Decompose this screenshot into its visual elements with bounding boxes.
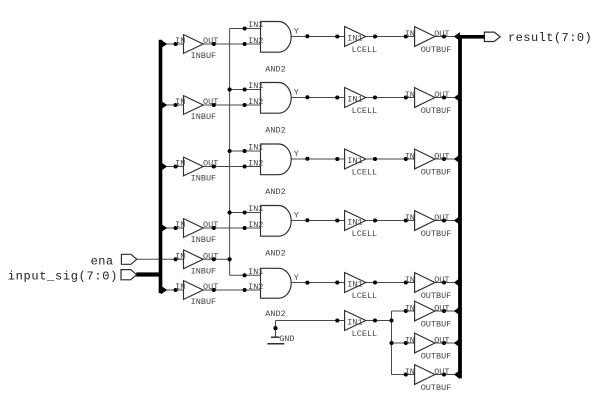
svg-text:LCELL: LCELL — [352, 329, 378, 339]
svg-text:OUTBUF: OUTBUF — [421, 106, 452, 116]
svg-text:IN: IN — [405, 29, 415, 39]
svg-text:IN2: IN2 — [248, 282, 263, 292]
svg-text:INBUF: INBUF — [191, 51, 217, 61]
svg-text:GND: GND — [279, 334, 294, 344]
svg-text:IN1: IN1 — [248, 204, 263, 214]
svg-text:OUT: OUT — [434, 367, 449, 377]
svg-text:INBUF: INBUF — [191, 235, 217, 245]
svg-text:INBUF: INBUF — [191, 174, 217, 184]
svg-text:AND2: AND2 — [265, 309, 285, 319]
svg-text:OUT: OUT — [434, 152, 449, 162]
svg-text:INBUF: INBUF — [191, 297, 217, 307]
svg-text:IN1: IN1 — [347, 156, 362, 166]
svg-text:Y: Y — [294, 27, 299, 37]
svg-text:OUT: OUT — [434, 29, 449, 39]
svg-text:Y: Y — [294, 211, 299, 221]
svg-text:AND2: AND2 — [265, 64, 285, 74]
svg-text:ena: ena — [91, 255, 114, 269]
svg-text:OUTBUF: OUTBUF — [421, 319, 452, 329]
svg-text:OUT: OUT — [434, 90, 449, 100]
svg-text:input_sig(7:0): input_sig(7:0) — [8, 269, 118, 283]
svg-text:IN1: IN1 — [347, 279, 362, 289]
svg-text:IN: IN — [405, 90, 415, 100]
svg-text:Y: Y — [294, 88, 299, 98]
svg-text:AND2: AND2 — [265, 187, 285, 197]
svg-text:INBUF: INBUF — [191, 267, 217, 277]
svg-text:OUT: OUT — [434, 304, 449, 314]
svg-text:IN: IN — [175, 220, 185, 230]
svg-text:OUTBUF: OUTBUF — [421, 351, 452, 361]
svg-text:IN1: IN1 — [248, 143, 263, 153]
svg-text:IN1: IN1 — [347, 317, 362, 327]
svg-text:IN: IN — [175, 97, 185, 107]
svg-text:OUTBUF: OUTBUF — [421, 383, 452, 393]
svg-text:IN1: IN1 — [347, 33, 362, 43]
svg-text:IN1: IN1 — [347, 217, 362, 227]
svg-text:OUTBUF: OUTBUF — [421, 229, 452, 239]
svg-text:LCELL: LCELL — [352, 45, 378, 55]
svg-text:IN: IN — [405, 367, 415, 377]
svg-text:LCELL: LCELL — [352, 291, 378, 301]
svg-text:result(7:0): result(7:0) — [508, 31, 592, 45]
svg-text:OUTBUF: OUTBUF — [421, 291, 452, 301]
svg-text:LCELL: LCELL — [352, 168, 378, 178]
svg-text:OUT: OUT — [203, 36, 218, 46]
svg-text:OUT: OUT — [203, 220, 218, 230]
svg-text:IN1: IN1 — [248, 81, 263, 91]
svg-text:OUT: OUT — [434, 275, 449, 285]
svg-text:IN: IN — [175, 36, 185, 46]
svg-text:IN: IN — [405, 336, 415, 346]
svg-text:IN1: IN1 — [248, 267, 263, 277]
svg-text:IN2: IN2 — [248, 220, 263, 230]
svg-text:AND2: AND2 — [265, 125, 285, 135]
svg-text:OUT: OUT — [203, 97, 218, 107]
svg-text:IN1: IN1 — [347, 94, 362, 104]
svg-text:IN: IN — [405, 152, 415, 162]
svg-text:IN2: IN2 — [248, 158, 263, 168]
svg-text:Y: Y — [294, 149, 299, 159]
svg-text:INBUF: INBUF — [191, 112, 217, 122]
svg-text:LCELL: LCELL — [352, 229, 378, 239]
svg-text:OUTBUF: OUTBUF — [421, 167, 452, 177]
svg-text:OUT: OUT — [434, 213, 449, 223]
svg-text:IN: IN — [405, 213, 415, 223]
svg-text:IN: IN — [405, 304, 415, 314]
svg-text:OUT: OUT — [203, 252, 218, 262]
svg-text:IN: IN — [175, 159, 185, 169]
svg-text:OUTBUF: OUTBUF — [421, 45, 452, 55]
svg-text:LCELL: LCELL — [352, 106, 378, 116]
svg-text:OUT: OUT — [434, 336, 449, 346]
svg-text:AND2: AND2 — [265, 248, 285, 258]
svg-text:IN2: IN2 — [248, 97, 263, 107]
svg-text:IN2: IN2 — [248, 36, 263, 46]
svg-text:IN: IN — [175, 252, 185, 262]
svg-text:IN: IN — [405, 275, 415, 285]
svg-text:Y: Y — [294, 273, 299, 283]
svg-text:OUT: OUT — [203, 282, 218, 292]
svg-text:OUT: OUT — [203, 159, 218, 169]
svg-text:IN: IN — [175, 282, 185, 292]
svg-text:IN1: IN1 — [248, 20, 263, 30]
